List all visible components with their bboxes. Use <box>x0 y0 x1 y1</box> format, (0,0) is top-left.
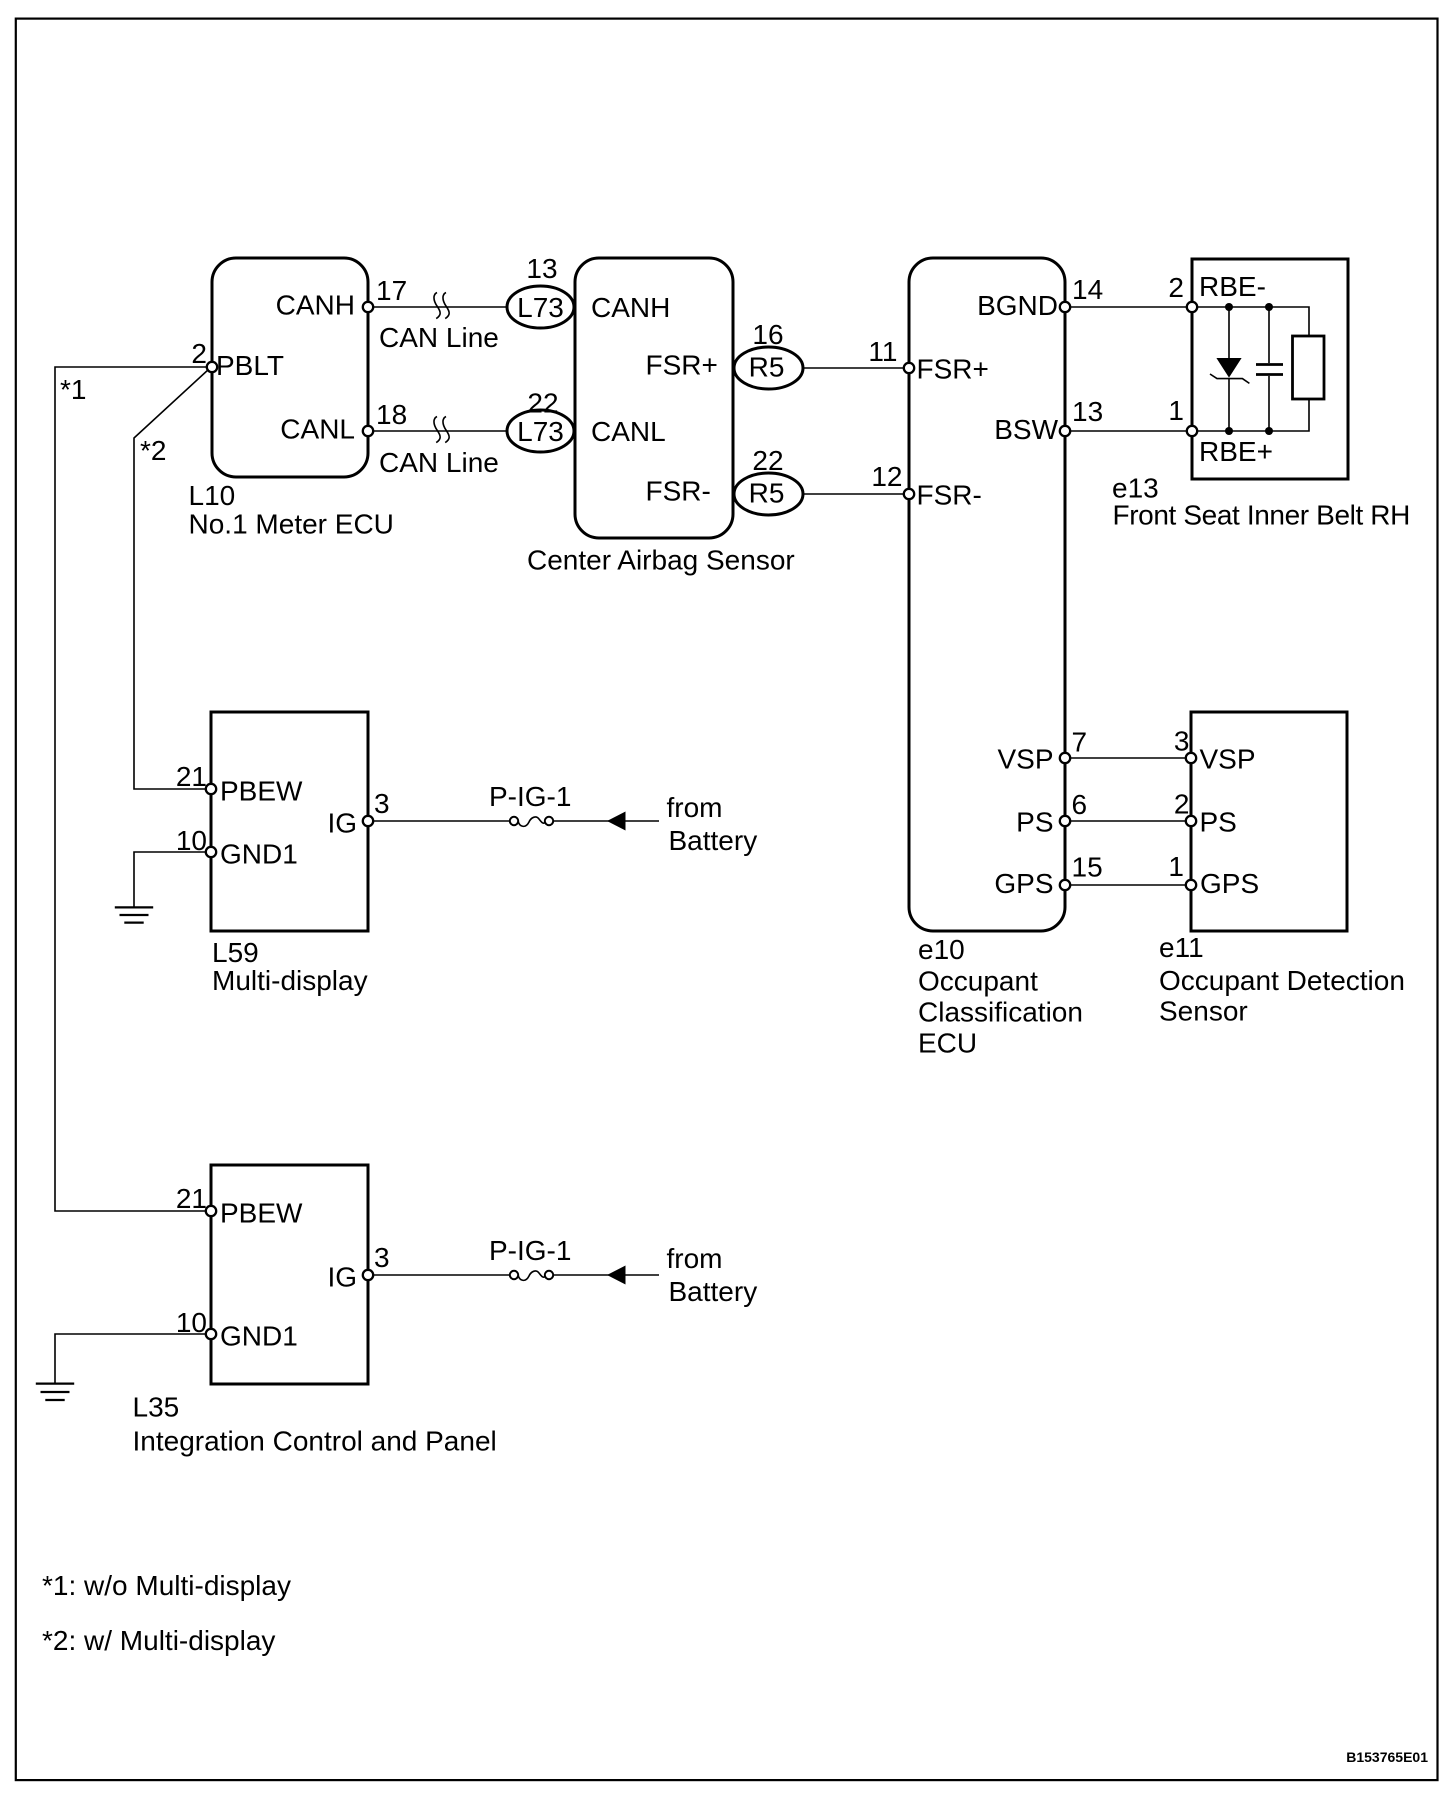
wire *1 (L10 PBLT to L35 PBEW, w/o Multi-display) <box>55 367 208 1211</box>
svg-text:22: 22 <box>752 445 783 476</box>
svg-text:L35: L35 <box>133 1392 180 1423</box>
svg-text:CANH: CANH <box>591 292 670 323</box>
svg-text:*1: w/o Multi-display: *1: w/o Multi-display <box>42 1570 291 1601</box>
svg-text:L10: L10 <box>189 480 236 511</box>
connector: Center Airbag Sensor <box>527 258 795 576</box>
wire L35 GND1 to ground <box>55 1334 207 1383</box>
connector code L73 (lower) <box>507 388 574 453</box>
svg-text:P-IG-1: P-IG-1 <box>489 781 571 812</box>
wire *2 (L10 PBLT to L59 PBEW, w/ Multi-display) <box>134 369 209 789</box>
resistor (e13) <box>1293 336 1325 399</box>
svg-text:2: 2 <box>1174 789 1190 820</box>
connector e11 Occupant Detection Sensor <box>1159 712 1405 1027</box>
pin L35-21 PBEW <box>206 1206 216 1216</box>
wire e13 bottom rail (pin 1 to resistor branch) <box>1192 399 1309 431</box>
svg-text:Occupant: Occupant <box>918 966 1038 997</box>
pin e10-7 VSP <box>1060 753 1070 763</box>
svg-text:FSR+: FSR+ <box>646 350 718 381</box>
pin e10-14 BGND <box>1060 302 1070 312</box>
svg-text:VSP: VSP <box>997 744 1053 775</box>
svg-text:L73: L73 <box>517 416 564 447</box>
label from Battery (L35) <box>667 1243 758 1307</box>
svg-text:GND1: GND1 <box>220 1321 298 1352</box>
svg-text:22: 22 <box>527 388 558 419</box>
svg-text:21: 21 <box>176 1183 207 1214</box>
svg-text:from: from <box>667 1243 723 1274</box>
svg-text:CANL: CANL <box>591 416 666 447</box>
svg-text:RBE-: RBE- <box>1199 271 1266 302</box>
svg-text:6: 6 <box>1072 789 1088 820</box>
svg-text:PBLT: PBLT <box>216 350 284 381</box>
connector L35 Integration Control and Panel <box>133 1165 497 1457</box>
svg-text:IG: IG <box>327 1262 357 1293</box>
svg-text:11: 11 <box>868 336 897 367</box>
svg-text:Multi-display: Multi-display <box>212 965 368 996</box>
svg-text:BSW: BSW <box>994 414 1058 445</box>
svg-text:*2: *2 <box>140 435 166 466</box>
svg-text:2: 2 <box>191 338 207 369</box>
pin e10-11 FSR+ <box>904 363 914 373</box>
svg-text:e11: e11 <box>1159 932 1204 963</box>
svg-text:from: from <box>667 792 723 823</box>
svg-text:FSR-: FSR- <box>917 479 982 510</box>
fuse P-IG-1 (L59) <box>489 781 571 826</box>
pin e10-15 GPS <box>1060 880 1070 890</box>
ground (L59) <box>115 907 153 922</box>
svg-text:B153765E01: B153765E01 <box>1346 1749 1428 1765</box>
wire BSW (e10 pin 13 to e13 pin 1) <box>1065 430 1192 432</box>
junction top-right <box>1265 303 1273 311</box>
svg-text:13: 13 <box>526 253 557 284</box>
arrow from battery (L59) <box>607 812 626 831</box>
pin e11-3 VSP <box>1186 753 1196 763</box>
svg-text:1: 1 <box>1168 395 1184 426</box>
svg-text:CANL: CANL <box>280 414 355 445</box>
wire FSR+ (R5 to e10 pin 11) <box>803 367 909 369</box>
pin e11-2 PS <box>1186 816 1196 826</box>
wire L35 IG to fuse <box>368 1274 510 1276</box>
svg-text:Occupant Detection: Occupant Detection <box>1159 965 1405 996</box>
svg-text:IG: IG <box>327 808 357 839</box>
svg-text:Front Seat Inner Belt RH: Front Seat Inner Belt RH <box>1113 500 1410 531</box>
pin e10-6 PS <box>1060 816 1070 826</box>
svg-text:RBE+: RBE+ <box>1199 436 1273 467</box>
svg-text:14: 14 <box>1072 274 1103 305</box>
svg-text:VSP: VSP <box>1200 744 1256 775</box>
junction bottom-left <box>1225 427 1233 435</box>
svg-text:12: 12 <box>871 461 902 492</box>
wire L59 GND1 to ground <box>134 852 207 907</box>
svg-text:e10: e10 <box>918 934 965 965</box>
svg-text:13: 13 <box>1072 396 1103 427</box>
capacitor (e13) <box>1256 307 1283 431</box>
wire BGND (e10 pin 14 to e13 pin 2) <box>1065 306 1192 308</box>
pin L59-10 GND1 <box>206 847 216 857</box>
pin L59-3 IG <box>363 816 373 826</box>
zener diode (e13) <box>1210 307 1249 431</box>
pin L10-18 CANL <box>363 426 373 436</box>
svg-text:PS: PS <box>1016 807 1053 838</box>
svg-text:7: 7 <box>1072 727 1088 758</box>
svg-text:GPS: GPS <box>994 868 1053 899</box>
svg-text:BGND: BGND <box>977 290 1058 321</box>
connector L59 Multi-display <box>211 712 368 996</box>
connector code R5 (upper) <box>734 319 803 389</box>
svg-text:*1: *1 <box>60 374 86 405</box>
svg-text:L73: L73 <box>517 292 564 323</box>
svg-text:17: 17 <box>376 275 407 306</box>
svg-text:Center Airbag Sensor: Center Airbag Sensor <box>527 545 795 576</box>
wire fuse to battery (L59) <box>553 820 659 822</box>
wire VSP (e10 pin 7 to e11 pin 3) <box>1065 757 1191 759</box>
connector code R5 (lower) <box>734 445 803 515</box>
junction top-left <box>1225 303 1233 311</box>
pin L59-21 PBEW <box>206 784 216 794</box>
svg-text:GND1: GND1 <box>220 839 298 870</box>
pin L10-17 CANH <box>363 302 373 312</box>
junction bottom-right <box>1265 427 1273 435</box>
pin L10-2 PBLT <box>207 362 217 372</box>
label from Battery (L59) <box>667 792 758 856</box>
svg-text:21: 21 <box>176 761 207 792</box>
svg-text:PBEW: PBEW <box>220 1198 303 1229</box>
pin e10-12 FSR- <box>904 489 914 499</box>
svg-text:3: 3 <box>1174 726 1190 757</box>
pin L35-10 GND1 <box>206 1329 216 1339</box>
ground (L35) <box>36 1384 74 1400</box>
pin e13-1 RBE+ <box>1187 426 1197 436</box>
svg-text:No.1 Meter ECU: No.1 Meter ECU <box>189 509 394 540</box>
pin L35-3 IG <box>363 1270 373 1280</box>
pin e13-2 RBE- <box>1187 302 1197 312</box>
svg-text:GPS: GPS <box>1200 868 1259 899</box>
svg-text:18: 18 <box>376 399 407 430</box>
wire fuse to battery (L35) <box>553 1274 659 1276</box>
svg-text:Sensor: Sensor <box>1159 996 1248 1027</box>
svg-text:FSR-: FSR- <box>646 476 711 507</box>
svg-text:P-IG-1: P-IG-1 <box>489 1235 571 1266</box>
wire L59 IG to fuse <box>368 820 510 822</box>
wire GPS (e10 pin 15 to e11 pin 1) <box>1065 884 1191 886</box>
svg-text:Classification: Classification <box>918 997 1083 1028</box>
connector e13 Front Seat Inner Belt RH <box>1112 259 1410 531</box>
svg-text:PS: PS <box>1200 807 1237 838</box>
svg-text:CAN Line: CAN Line <box>379 322 499 353</box>
svg-text:1: 1 <box>1168 851 1184 882</box>
svg-text:R5: R5 <box>749 352 785 383</box>
svg-text:FSR+: FSR+ <box>917 354 989 385</box>
svg-text:ECU: ECU <box>918 1028 977 1059</box>
svg-text:CANH: CANH <box>276 290 355 321</box>
svg-text:15: 15 <box>1072 852 1103 883</box>
pin e11-1 GPS <box>1186 880 1196 890</box>
fuse P-IG-1 (L35) <box>489 1235 571 1280</box>
arrow from battery (L35) <box>607 1266 626 1285</box>
connector e10 Occupant Classification ECU <box>909 258 1083 1059</box>
svg-text:*2: w/ Multi-display: *2: w/ Multi-display <box>42 1625 275 1656</box>
svg-text:Integration Control and Panel: Integration Control and Panel <box>133 1426 497 1457</box>
wire CANL (L10 pin 18 to L73) <box>368 417 507 443</box>
svg-text:16: 16 <box>752 319 783 350</box>
connector code L73 (upper) <box>507 253 574 328</box>
svg-text:L59: L59 <box>212 937 259 968</box>
pin e10-13 BSW <box>1060 426 1070 436</box>
connector L10 No.1 Meter ECU <box>189 258 394 540</box>
wire CANH (L10 pin 17 to L73) <box>368 293 507 319</box>
svg-text:PBEW: PBEW <box>220 776 303 807</box>
svg-text:3: 3 <box>374 1242 390 1273</box>
svg-text:R5: R5 <box>749 478 785 509</box>
wire PS (e10 pin 6 to e11 pin 2) <box>1065 820 1191 822</box>
svg-text:2: 2 <box>1168 272 1184 303</box>
wire e13 top rail (pin 2 to resistor branch) <box>1192 307 1309 336</box>
svg-text:Battery: Battery <box>669 1276 758 1307</box>
svg-text:3: 3 <box>374 788 390 819</box>
svg-text:Battery: Battery <box>669 825 758 856</box>
svg-text:CAN Line: CAN Line <box>379 447 499 478</box>
wire FSR- (R5 to e10 pin 12) <box>803 493 909 495</box>
